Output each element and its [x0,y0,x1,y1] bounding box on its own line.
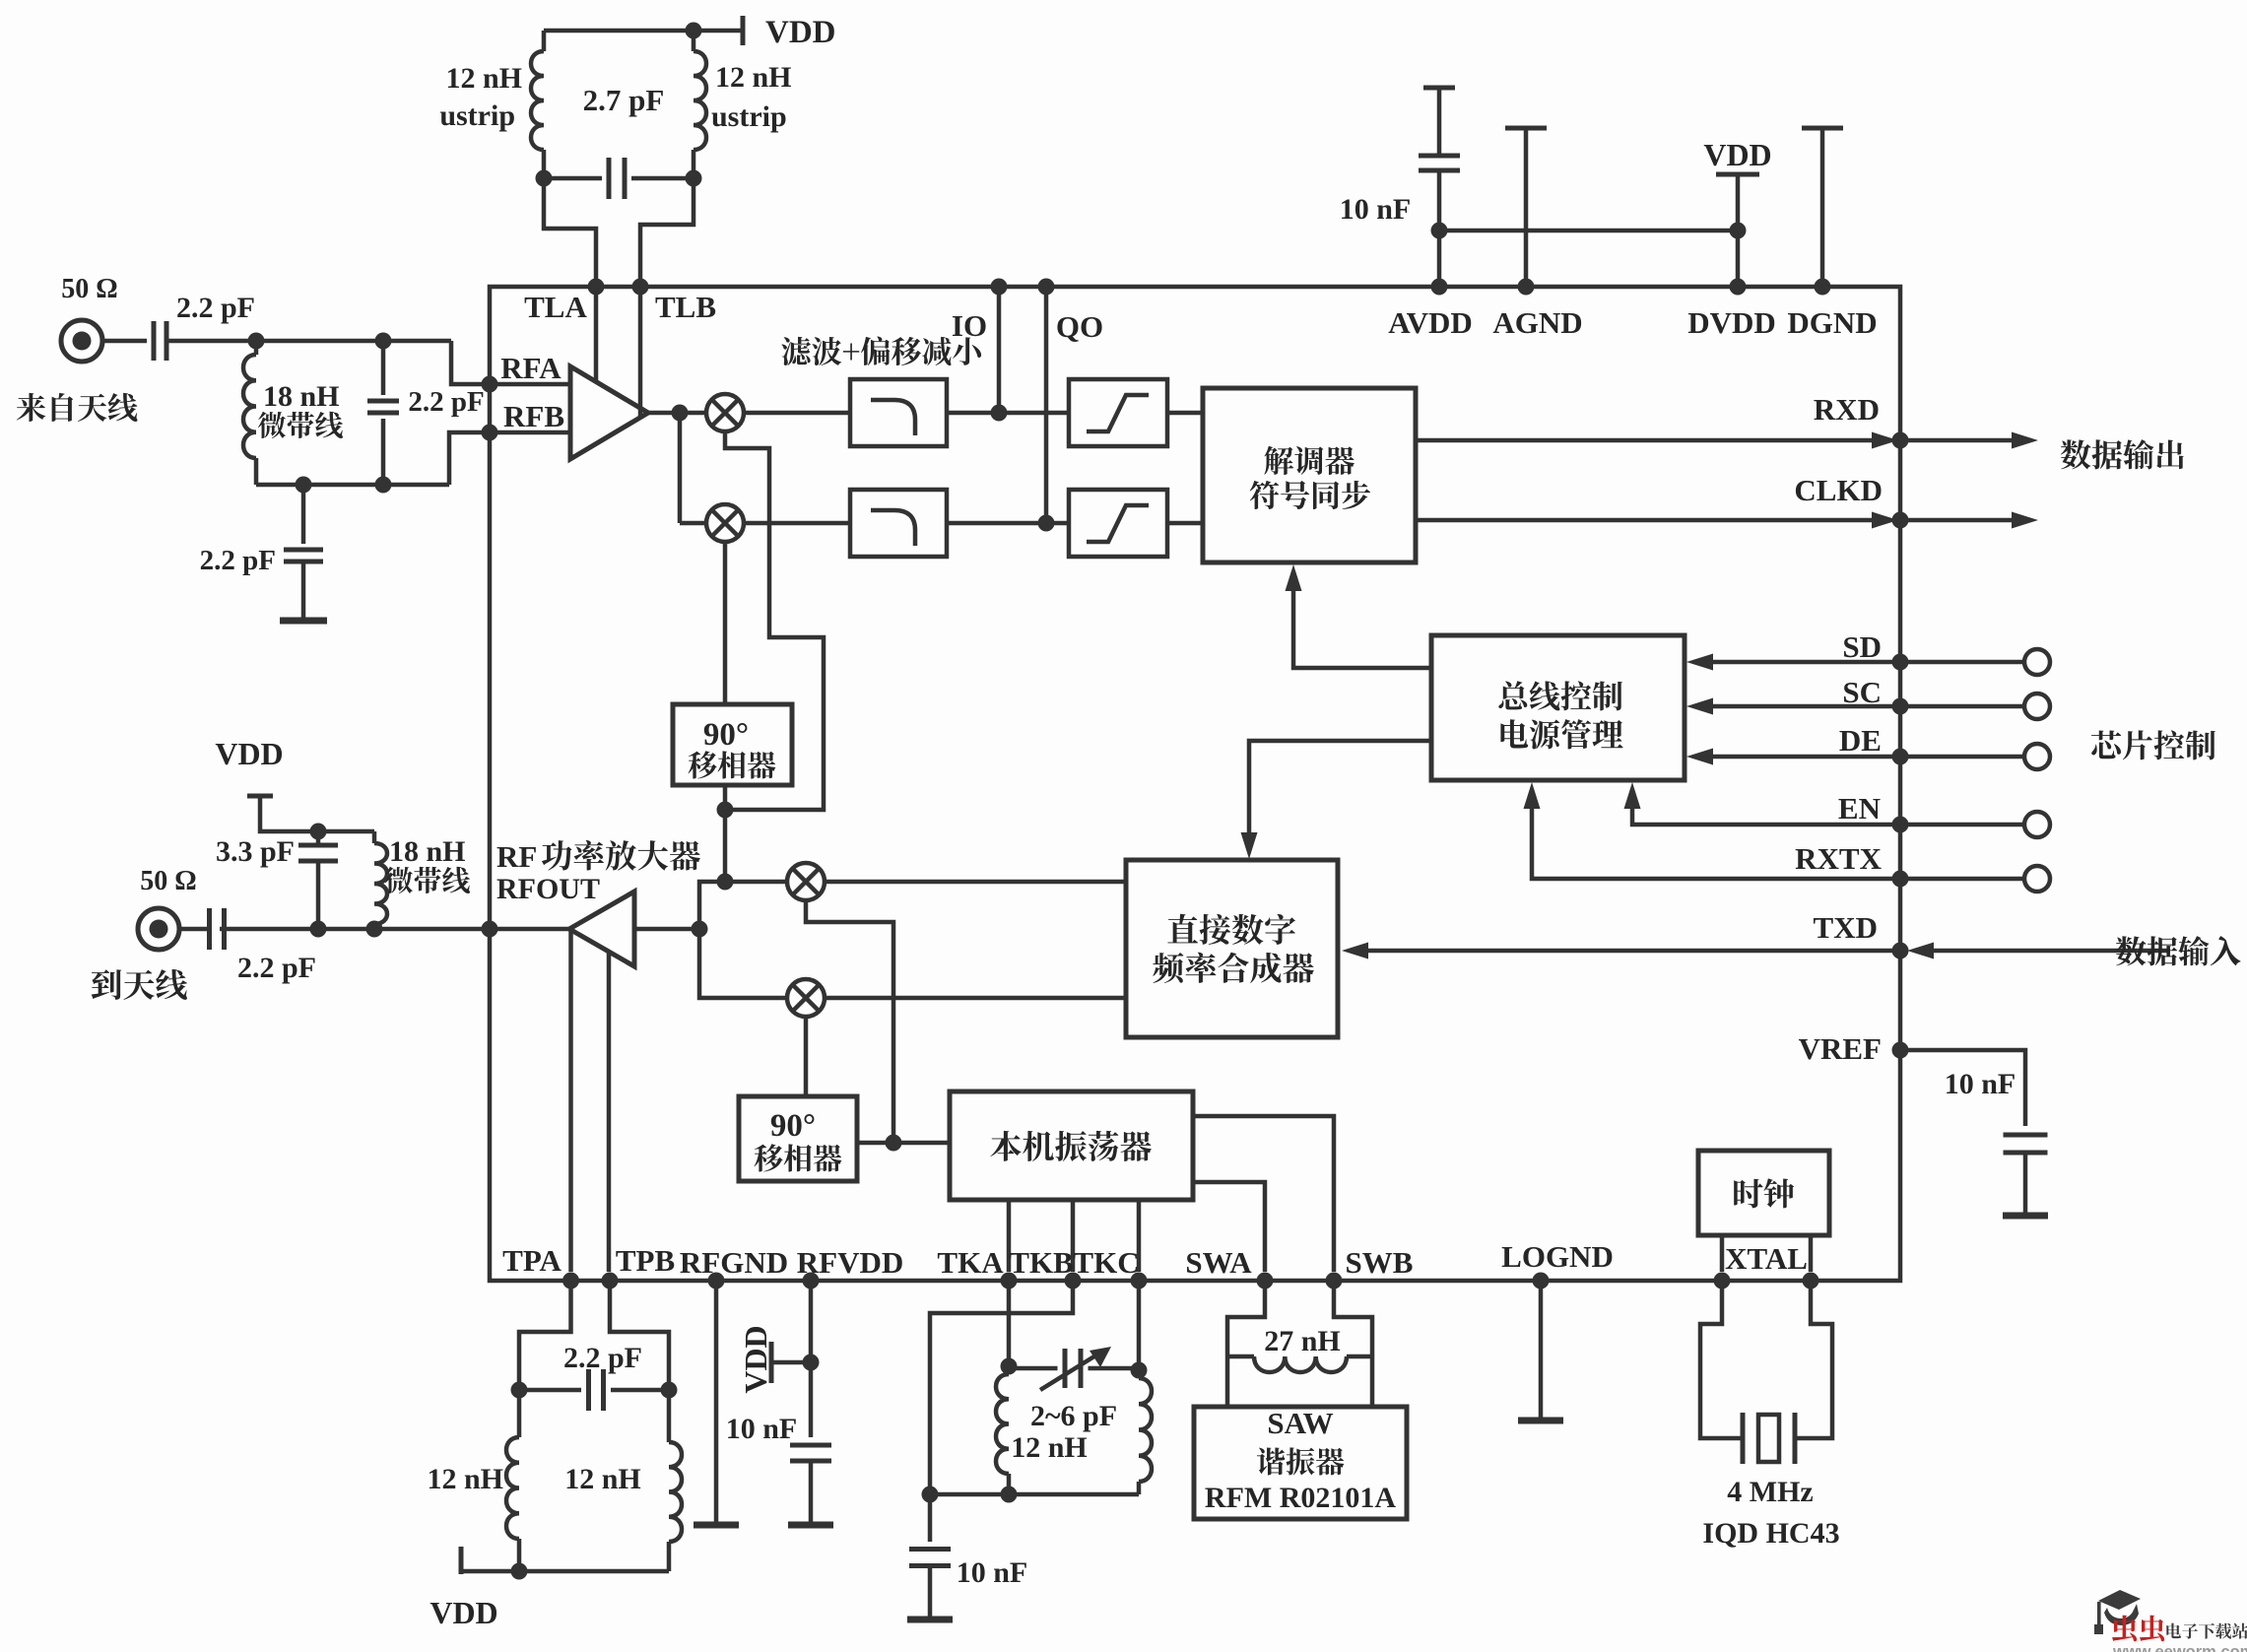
varactor arrow [1040,1355,1097,1390]
wire CLKD out [1416,518,1873,523]
wire EN [1632,802,2024,825]
node pin LOGND [1533,1273,1550,1289]
label weidaixian (RX) [258,412,343,438]
wire SD [1711,660,2024,665]
crystal 4MHz [1741,1413,1746,1464]
inductor 12nH left (TK) [1007,1366,1012,1374]
svg-text:CLKD: CLKD [1794,473,1883,507]
node TP tank L [511,1382,528,1399]
mixer RX I [706,394,744,431]
node pin DGND [1815,279,1831,296]
power VDD tick (DVDD) [1716,172,1759,177]
svg-text:TXD: TXD [1814,910,1878,945]
label xinpian kongzhi [2091,730,2215,760]
inductor 12nH left (TP) [517,1390,522,1437]
svg-text:12 nH: 12 nH [445,62,522,95]
mixer TX I [787,863,825,900]
node RX rail A [296,477,312,494]
arrow SC into box [1686,698,1713,715]
svg-text:TLB: TLB [655,290,716,324]
svg-text:12 nH: 12 nH [427,1463,503,1495]
wire TLB drop [640,178,694,287]
wire TPB vertical [607,952,612,1272]
wire LOGND drop [1539,1281,1544,1421]
wire limiter I to demod [1167,411,1203,416]
node pin RFB [482,425,498,441]
arrow into demod [1286,564,1302,591]
wire to Q mixer [680,521,706,526]
terminal RXTX [2024,866,2050,892]
block bus control / power mgmt [1431,635,1685,780]
block local oscillator [950,1091,1193,1200]
node TX LO A [717,802,734,819]
wire tank bottom rail [544,176,602,181]
wire SWB drop [1334,1281,1372,1407]
svg-text:2.2 pF: 2.2 pF [176,292,255,324]
wire clock leg A [1720,1235,1725,1272]
label benji zhendangqi [990,1131,1151,1161]
svg-text:VDD: VDD [765,15,836,50]
wire PA output [220,927,569,932]
label yixiangqi (TX ps) [755,1144,842,1171]
svg-text:SD: SD [1842,629,1882,664]
wire cap to RFA corner [166,339,451,344]
label laitianxian [17,393,138,422]
terminal DE [2024,744,2050,769]
node pin SWB [1326,1273,1343,1289]
wire SC [1711,704,2024,709]
label shuju shuchu [2061,439,2184,469]
arrow CLKD at edge [1872,512,1898,529]
svg-text:RXD: RXD [1814,392,1880,427]
wire limiter Q to demod [1167,521,1203,526]
wire TK bottom rail [930,1492,1139,1497]
capacitor 2.2pF shunt (RX) [301,485,306,544]
arrow TXD input [1907,943,1934,959]
wire DE [1711,755,2024,760]
node pin AVDD [1431,279,1448,296]
connector 50ohm antenna out [138,908,179,950]
svg-text:90°: 90° [770,1108,816,1144]
label yixiangqi (RX ps) [689,751,776,778]
chip boundary box [490,287,1900,1281]
wire RXTX [1532,802,2024,879]
wire PA input [634,927,699,932]
filter curve Q [871,510,915,546]
wire TKA internal [1007,1200,1012,1272]
node TP tank R [661,1382,678,1399]
svg-text:27 nH: 27 nH [1264,1325,1341,1357]
wire RXD out [1416,438,1873,443]
node TX match A [310,921,327,938]
svg-text:DGND: DGND [1787,305,1877,340]
svg-text:12 nH: 12 nH [1011,1431,1088,1464]
wire VDD to rail (TX) [260,796,374,831]
wire Q mixer to filter [744,521,850,526]
logo dianzixiazaizhan [2166,1623,2247,1639]
wire RFB to LNA [490,430,570,435]
ground LOGND [1518,1418,1563,1424]
wire AVDD riser [1437,231,1442,287]
wire TX Q to lower ps [804,1017,809,1096]
svg-text:RFB: RFB [503,399,564,433]
node AVDD junction [1431,223,1448,239]
node pin RFOUT [482,921,498,938]
node pin RFA [482,376,498,393]
label lvbo pianyi jianxiao [781,337,981,366]
arrow SD into box [1686,654,1713,671]
capacitor 2.7pF (series) [607,158,612,199]
wire conn to cap (TX) [179,927,210,932]
node pin CLKD [1892,512,1909,529]
svg-text:4 MHz: 4 MHz [1727,1476,1813,1508]
wire AVDD-DVDD rail [1439,229,1738,233]
capacitor 2.2pF series (TX out) [207,908,212,950]
node pin VREF [1892,1042,1909,1059]
wire TPB drop [610,1281,669,1382]
node RX rail B [375,477,392,494]
node TX LO B [717,874,734,891]
terminal SD [2024,649,2050,675]
arrow CLKD end [2012,512,2038,529]
inductor 12nH right (TP) [667,1390,672,1442]
wire RFA to LNA [490,382,570,387]
node varactor R [1131,1362,1148,1379]
node pin TXD [1892,943,1909,959]
amplifier LNA [570,366,648,459]
svg-text:10 nF: 10 nF [1340,193,1412,226]
limiter curve Q [1087,505,1149,542]
wire TLA internal [594,287,599,382]
wire SWA drop [1227,1281,1265,1407]
wire varactor left [1009,1366,1058,1371]
svg-text:2.2 pF: 2.2 pF [408,386,484,418]
wire TKC drop [1137,1281,1142,1370]
node pin AGND [1518,279,1535,296]
block 90deg phase shifter (RX) [673,704,792,785]
node IO junction [991,405,1008,422]
ground RFGND [694,1522,739,1529]
svg-text:2.2 pF: 2.2 pF [237,952,316,984]
label shizhong [1734,1178,1794,1208]
svg-text:18 nH: 18 nH [389,835,466,868]
wire RXD external [1900,438,2013,443]
wire crystal right [1795,1281,1832,1438]
wire LO to SWB [1193,1116,1334,1272]
node pin SC [1892,698,1909,715]
wire TXD internal [1365,949,1900,954]
block DDS [1126,860,1338,1037]
wire tank top rail [544,29,743,33]
svg-text:RXTX: RXTX [1795,841,1882,876]
arrow DE into box [1686,749,1713,765]
capacitor 2.2pF (TP tank) [586,1369,591,1411]
svg-text:RFM R02101A: RFM R02101A [1205,1482,1396,1514]
svg-text:SC: SC [1842,675,1882,709]
svg-text:50 Ω: 50 Ω [61,274,117,304]
node pin IO [991,279,1008,296]
svg-text:VDD: VDD [738,1325,773,1393]
inductor 12nH right (TK) [1137,1370,1142,1378]
wire TPA drop [519,1281,571,1382]
svg-text:AVDD: AVDD [1388,305,1473,340]
svg-text:TPB: TPB [616,1243,675,1278]
mixer TX Q [787,979,825,1017]
node tank bottom left [536,170,553,187]
node pin TKA [1001,1273,1018,1289]
capacitor 10nF (AVDD) [1437,170,1442,231]
wire RX bottom rail [256,483,449,488]
wire TKC internal [1137,1200,1142,1272]
mixer RX Q [706,504,744,542]
block 90deg phase shifter (TX) [739,1096,857,1181]
svg-text:10 nF: 10 nF [1945,1068,2016,1100]
wire LO to SWA [1193,1182,1265,1272]
wire QO vertical [1044,287,1049,523]
logo cap [2094,1590,2141,1634]
svg-text:ustrip: ustrip [711,100,787,133]
power tick DGND [1802,126,1843,131]
wire clock leg B [1809,1235,1814,1272]
svg-text:DE: DE [1839,723,1882,758]
wire ps out [723,785,728,810]
wire TX Q to DDS [825,996,1126,1001]
wire DGND riser [1820,128,1825,287]
node pin DVDD [1730,279,1747,296]
svg-text:18 nH: 18 nH [263,380,340,413]
label daotianxian [92,969,187,1000]
svg-text:SAW: SAW [1267,1406,1333,1440]
ground (VREF cap) [2003,1213,2048,1220]
node LO input [886,1135,902,1152]
wire TKB internal [1071,1200,1076,1272]
label jietiaoqi [1264,446,1354,475]
capacitor 2.2pF series (RX input) [152,321,157,361]
terminal SC [2024,694,2050,719]
node pin EN [1892,817,1909,833]
wire TX I LO stem [806,900,893,1143]
power VDD tick (RFVDD) [769,1342,774,1383]
node pin TPA [562,1273,579,1289]
svg-text:RF: RF [496,839,537,874]
svg-text:QO: QO [1056,309,1103,344]
wire TX LO drop [723,810,728,882]
filter box Q [850,490,947,557]
svg-text:SWB: SWB [1346,1245,1414,1280]
svg-text:2.7 pF: 2.7 pF [583,83,665,117]
wire TPA vertical [568,930,573,1272]
svg-text:90°: 90° [703,717,749,753]
filter curve I [871,400,915,435]
node pin TLB [632,279,649,296]
arrow RXD end [2012,432,2038,449]
wire TP bottom rail [461,1569,669,1574]
label weidaixian (TX) [385,867,470,893]
connector 50ohm antenna input [61,320,102,362]
wire CLKD external [1900,518,2013,523]
filter box I [850,379,947,446]
node tank bottom right [686,170,702,187]
label zhijie shuzi [1167,914,1295,945]
node RX net A [248,333,265,350]
svg-text:SWA: SWA [1185,1245,1252,1280]
capacitor 10nF (RFVDD) [790,1443,831,1448]
capacitor 10nF (VREF) [2004,1133,2048,1138]
wire TLB internal [638,287,643,418]
wire TLA drop [544,178,596,287]
svg-text:www.eeworm.com: www.eeworm.com [2112,1643,2247,1652]
wire to TX I mixer [725,880,787,885]
arrow EN into box [1624,782,1641,809]
arrow TXD into DDS [1342,943,1368,959]
node pin TLA [588,279,605,296]
node pin RFGND [708,1273,725,1289]
wire TKA drop [1007,1281,1012,1366]
limiter box Q [1069,490,1167,557]
svg-text:TLA: TLA [524,290,587,324]
label xiezhenqi [1257,1447,1345,1475]
svg-text:AGND: AGND [1492,305,1582,340]
node TX rail VDD [310,824,327,840]
inductor 27nH [1227,1355,1254,1359]
svg-text:IQD HC43: IQD HC43 [1702,1517,1839,1550]
label shuju shuru [2116,936,2241,965]
svg-text:IO: IO [952,308,987,343]
svg-text:TKB: TKB [1009,1245,1073,1280]
wire RFB riser [449,432,490,485]
power VDD tick (tank) [741,16,746,45]
amplifier RF PA [569,892,634,966]
node pin XTAL-B [1803,1273,1819,1289]
arrow RXD at edge [1872,432,1898,449]
inductor 12nH ustrip left (tank) [542,31,547,51]
svg-text:RFOUT: RFOUT [496,873,600,905]
wire TX I to DDS [825,880,1126,885]
wire TKB drop [930,1281,1073,1487]
wire RFA step [451,341,490,384]
label zongxian kongzhi [1498,681,1622,710]
svg-text:2.2 pF: 2.2 pF [200,545,276,576]
svg-text:3.3 pF: 3.3 pF [216,835,295,868]
node DVDD junction [1730,223,1747,239]
svg-text:RFA: RFA [500,351,562,385]
node pin RXD [1892,432,1909,449]
wire AGND riser [1524,128,1529,287]
wire filter I out [947,411,1069,416]
svg-text:ustrip: ustrip [439,99,515,132]
power VDD tick (TX match) [247,794,273,799]
capacitor varactor 2-6pF [1063,1349,1068,1388]
node pin SD [1892,654,1909,671]
wire Q mixer to phase shifter [723,542,728,704]
node QO junction [1038,515,1055,532]
node TK rail L [922,1487,939,1503]
wire RFVDD drop [809,1281,814,1437]
node pin TKC [1131,1273,1148,1289]
power tick AGND [1505,126,1547,131]
wire LNA out down to Q [678,413,683,523]
wire demod feedback [1293,584,1431,668]
svg-text:VDD: VDD [430,1595,497,1630]
arrow into DDS [1241,832,1258,859]
svg-text:TPA: TPA [502,1243,562,1278]
wire VDD spur (RFVDD) [773,1360,811,1365]
wire to DDS [1249,741,1431,839]
node LNA output [672,405,689,422]
limiter box I [1069,379,1167,446]
svg-text:2.2 pF: 2.2 pF [563,1342,642,1374]
node RX net B [375,333,392,350]
label dianyuan guanli [1500,719,1622,749]
logo chongchong [2112,1616,2137,1642]
limiter curve I [1087,395,1149,431]
wire TXD external [1933,949,2170,954]
ground RFVDD [788,1522,833,1529]
wire IO vertical [997,287,1002,413]
capacitor 2.2pF parallel (RX) [381,341,386,395]
wire filter Q out [947,521,1069,526]
wire I mixer to filter [744,411,850,416]
power VDD tick (TP) [459,1547,464,1574]
wire varactor right [1089,1366,1140,1371]
node pin XTAL-A [1714,1273,1731,1289]
node pin TKB [1065,1273,1082,1289]
node tank top right [686,23,702,39]
svg-text:50 Ω: 50 Ω [140,866,196,896]
svg-text:VDD: VDD [215,736,283,771]
node pin TPB [602,1273,619,1289]
node pin RFVDD [803,1273,820,1289]
svg-text:DVDD: DVDD [1687,305,1776,340]
label pinlv hechengqi [1153,953,1314,983]
node varactor L [1001,1358,1018,1375]
wire crystal left [1700,1281,1743,1438]
terminal EN [2024,812,2050,837]
svg-text:12 nH: 12 nH [715,61,792,94]
inductor 18nH microstrip (TX) [372,831,377,843]
capacitor 3.3pF (TX) [298,843,338,848]
ground (TK cap) [907,1617,953,1623]
node TX match B [366,921,383,938]
svg-text:LOGND: LOGND [1501,1239,1614,1274]
wire TX left drop [699,882,787,998]
wire RFGND drop [714,1281,719,1525]
node RFVDD vdd tee [803,1355,820,1371]
node pin DE [1892,749,1909,765]
inductor 12nH ustrip right (tank) [692,31,696,51]
svg-text:VREF: VREF [1799,1031,1882,1066]
svg-text:RFGND: RFGND [680,1245,788,1280]
svg-text:12 nH: 12 nH [564,1463,641,1495]
node pin SWA [1257,1273,1274,1289]
block SAW resonator [1194,1407,1407,1519]
svg-text:EN: EN [1838,791,1881,826]
block demodulator [1203,388,1416,562]
svg-text:TKA: TKA [937,1245,1004,1280]
wire lower ps to LO [857,1141,950,1146]
block clock [1698,1151,1829,1235]
svg-text:10 nF: 10 nF [957,1556,1028,1589]
svg-text:2~6 pF: 2~6 pF [1030,1400,1117,1432]
node TP bottom [511,1563,528,1580]
svg-text:TKC: TKC [1073,1245,1139,1280]
wire I mixer LO loop [725,431,824,810]
ground (RX shunt cap) [280,618,327,625]
wire connector to cap (RX) [102,339,147,344]
node pin RXTX [1892,871,1909,888]
inductor 18nH microstrip (RX) [254,341,259,355]
wire LNA output [648,411,706,416]
